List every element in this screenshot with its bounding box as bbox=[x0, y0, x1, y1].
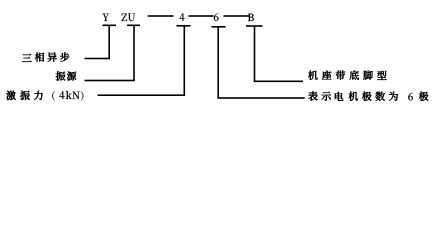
leader vertical from Y bbox=[108, 25, 110, 59]
label left-2 "振" bbox=[56, 71, 66, 80]
label left-3 digit 4 "4" bbox=[59, 91, 64, 99]
label left-1 "三" bbox=[22, 54, 31, 62]
dash between 6 and B bbox=[224, 15, 250, 17]
leader horizontal to label 机座带底脚型 bbox=[254, 81, 303, 83]
code letter Y "Y" bbox=[103, 14, 110, 21]
label left-3 "激" bbox=[6, 91, 15, 100]
label right-2 "示" bbox=[322, 92, 331, 101]
label left-1 "步" bbox=[60, 52, 69, 61]
label right-1 "型" bbox=[377, 71, 386, 80]
label right-2 tail "极" bbox=[419, 92, 429, 101]
label right-1 "带" bbox=[336, 71, 345, 80]
leader vertical from B bbox=[254, 26, 256, 82]
label right-1 "脚" bbox=[363, 71, 372, 80]
dash between 4 and 6 bbox=[189, 15, 214, 17]
underline under B bbox=[246, 25, 263, 27]
code letter U "U" bbox=[128, 13, 135, 20]
label right-2 "数" bbox=[375, 92, 384, 101]
leader vertical from 4 bbox=[184, 26, 186, 96]
label left-3 paren close "）" bbox=[81, 91, 84, 100]
label right-2 digit 6 "6" bbox=[408, 93, 413, 101]
label right-1 "座" bbox=[322, 71, 331, 80]
label left-3 "振" bbox=[20, 91, 30, 100]
label left-1 "相" bbox=[35, 52, 44, 61]
leader vertical from ZU bbox=[133, 25, 135, 81]
underline under 4 bbox=[177, 25, 191, 27]
code digit 4 "4" bbox=[179, 13, 184, 21]
label left-1 "异" bbox=[48, 53, 57, 62]
leader horizontal to label 激振力 bbox=[98, 94, 185, 96]
label right-2 "极" bbox=[362, 92, 372, 101]
underline under Y bbox=[103, 25, 117, 27]
label left-3 letter k "k" bbox=[66, 91, 72, 99]
leader vertical from 6 bbox=[217, 27, 219, 99]
dash between ZU and 4 bbox=[148, 15, 174, 17]
label right-1 "机" bbox=[308, 71, 317, 80]
underline under 6 bbox=[212, 26, 226, 28]
code digit 6 "6" bbox=[214, 13, 219, 21]
label left-3 paren open "（" bbox=[52, 91, 55, 100]
label left-3 "力" bbox=[34, 91, 43, 100]
leader horizontal to label 三相异步 bbox=[85, 58, 110, 60]
label right-2 "机" bbox=[349, 92, 358, 101]
code letter Z "Z" bbox=[121, 14, 127, 21]
label right-2 "为" bbox=[389, 92, 398, 101]
label right-1 "底" bbox=[350, 70, 359, 79]
leader horizontal to label 振源 bbox=[85, 80, 135, 82]
leader horizontal to label 表示电机极数 bbox=[218, 97, 305, 99]
label left-2 "源" bbox=[67, 71, 76, 80]
code letter B "B" bbox=[248, 14, 254, 21]
underline under ZU bbox=[127, 25, 140, 27]
label left-3 letter N "N" bbox=[72, 92, 79, 99]
label right-2 "表" bbox=[308, 91, 317, 100]
label right-2 "电" bbox=[335, 92, 343, 101]
